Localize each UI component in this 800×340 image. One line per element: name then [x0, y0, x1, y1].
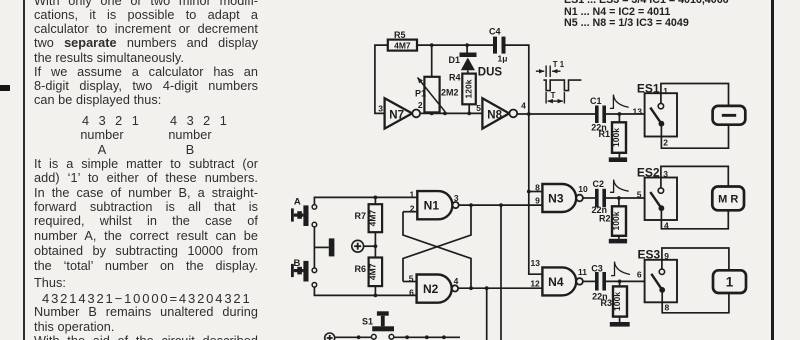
node start rail c: [442, 335, 446, 339]
analog switch ES3: [638, 248, 677, 313]
node R4 bottom: [467, 112, 471, 116]
svg-text:12: 12: [530, 279, 540, 289]
wire ES3 key loop: [662, 248, 729, 313]
minus key: [713, 106, 746, 125]
svg-text:2M2: 2M2: [441, 87, 459, 97]
node N8 out: [527, 112, 531, 116]
nand gate N3: [535, 182, 588, 212]
svg-text:N3: N3: [548, 191, 564, 205]
svg-text:T 1: T 1: [553, 60, 565, 69]
wire C3 to ES3 pin 6: [606, 280, 645, 282]
svg-text:1: 1: [726, 275, 734, 290]
clock bus vertical to N3/N4: [529, 114, 543, 274]
wire N1 out to N3 pin 9: [459, 204, 543, 206]
node R7 top: [374, 196, 378, 200]
svg-text:13: 13: [531, 258, 541, 268]
timing diagram T1: [536, 60, 582, 104]
ground R2: [609, 239, 627, 244]
resistor R7: [354, 197, 382, 246]
svg-text:1: 1: [409, 190, 414, 200]
switch S1: [362, 311, 394, 339]
resistor R2: [599, 198, 626, 239]
resistor R6: [354, 246, 382, 295]
wire N2 pin 5: [403, 281, 417, 283]
ground R3: [610, 322, 630, 327]
resistor R5: [388, 30, 417, 51]
svg-text:4M7: 4M7: [367, 210, 377, 227]
svg-text:13: 13: [633, 106, 643, 116]
svg-text:A: A: [294, 196, 301, 207]
svg-text:3: 3: [663, 169, 668, 179]
wire A bottom to B top: [313, 227, 315, 268]
svg-text:M R: M R: [718, 194, 738, 206]
IC designation note: [564, 0, 729, 6]
node N1 out to lower bus: [499, 203, 503, 207]
wire N2 out to N4 pin 12: [458, 287, 542, 289]
svg-text:N7: N7: [389, 109, 404, 121]
resistor R1: [598, 114, 626, 157]
svg-text:9: 9: [664, 251, 669, 261]
svg-text:100k: 100k: [612, 292, 622, 311]
svg-text:11: 11: [578, 267, 587, 277]
svg-text:R2: R2: [599, 213, 611, 223]
resistor R4: [449, 72, 476, 113]
svg-text:2: 2: [418, 100, 423, 110]
capacitor C4: [489, 27, 507, 64]
left text column: [34, 0, 258, 8]
svg-text:3: 3: [454, 193, 459, 203]
pulse symbol row 3: [611, 262, 630, 276]
potentiometer P1: [415, 45, 459, 113]
nand gate N1: [409, 190, 458, 220]
wire N3 pin 8: [529, 191, 543, 193]
node C1 R1 junction: [618, 112, 622, 116]
node start rail a: [405, 335, 409, 339]
svg-text:ES3: ES3: [638, 248, 661, 262]
supply plus: [352, 240, 376, 252]
svg-text:R1: R1: [598, 129, 610, 139]
svg-text:4: 4: [454, 276, 459, 286]
node C2 R2 junction: [617, 196, 621, 200]
wire bus down from N1 out: [500, 205, 502, 340]
pulse symbol row 1: [610, 95, 629, 109]
svg-text:R6: R6: [354, 264, 366, 274]
svg-text:1: 1: [663, 86, 668, 96]
wire bus down from N2 out: [486, 288, 488, 340]
svg-text:R4: R4: [449, 72, 461, 82]
svg-text:C2: C2: [593, 179, 605, 189]
svg-text:R5: R5: [394, 30, 406, 40]
supply plus bottom rail: [325, 333, 335, 340]
wire bottom start rail: [335, 336, 372, 338]
inverter N8: [476, 98, 526, 128]
svg-text:4M7: 4M7: [367, 263, 377, 280]
svg-text:10: 10: [578, 184, 588, 194]
node N1 out: [469, 203, 473, 207]
wire cross couple N2 out to N1 pin 2: [403, 212, 471, 289]
node start rail b: [425, 335, 429, 339]
analog switch ES1: [637, 81, 677, 147]
svg-text:D1: D1: [448, 55, 460, 65]
wire bottom rail B to N2 pin 6: [314, 287, 416, 295]
svg-text:N8: N8: [487, 109, 502, 121]
push button B: [291, 258, 317, 287]
svg-text:C1: C1: [590, 96, 602, 106]
node C3 R3 junction: [618, 280, 622, 284]
wire N8 out to C1: [517, 113, 595, 115]
svg-text:120k: 120k: [464, 79, 474, 98]
svg-text:2: 2: [663, 137, 668, 147]
inverter N7: [378, 98, 423, 128]
svg-text:N4: N4: [548, 275, 564, 289]
svg-text:T: T: [551, 91, 556, 100]
wire N7 input left vertical: [375, 45, 388, 113]
capacitor C2: [592, 179, 608, 215]
wire top rail oscillator: [417, 44, 493, 46]
node clock to N3 pin8: [527, 190, 531, 194]
diode D1 DUS: [448, 45, 502, 78]
wire ES2 key loop: [661, 166, 728, 228]
node on start rail: [357, 335, 361, 339]
svg-text:8: 8: [535, 182, 540, 192]
capacitor C1: [590, 96, 607, 133]
svg-text:P1: P1: [415, 88, 426, 98]
capacitor C3: [591, 264, 607, 302]
svg-text:8: 8: [665, 303, 670, 313]
wire N4 out to C3: [583, 280, 595, 282]
svg-text:9: 9: [535, 195, 540, 205]
wire N3 out to C2: [583, 197, 595, 199]
wire N1 pin 2: [403, 211, 417, 213]
svg-text:S1: S1: [362, 316, 373, 326]
wire ES1 key loop: [661, 84, 729, 149]
svg-text:R3: R3: [600, 298, 612, 308]
pulse symbol row 2: [610, 180, 629, 193]
svg-text:100k: 100k: [611, 128, 621, 147]
svg-text:4M7: 4M7: [394, 41, 411, 51]
svg-text:N2: N2: [423, 282, 439, 296]
svg-text:6: 6: [637, 269, 642, 279]
wire cross couple N1 out to N2 pin 5: [403, 205, 471, 281]
one key: [713, 270, 746, 293]
nand gate N4: [530, 258, 587, 296]
analog switch ES2: [637, 165, 677, 230]
wire C4 to N8 output corner: [506, 45, 529, 114]
node D1 top: [465, 43, 469, 47]
wire N7 out to N8 in: [420, 112, 482, 114]
svg-text:5: 5: [637, 189, 642, 199]
svg-text:1μ: 1μ: [498, 54, 508, 64]
svg-text:5: 5: [476, 103, 481, 113]
svg-text:N1: N1: [424, 199, 440, 213]
svg-text:100k: 100k: [611, 211, 621, 230]
nand gate N2: [409, 274, 459, 303]
wire C2 to ES2 pin 5: [606, 197, 645, 199]
resistor R3: [600, 281, 627, 322]
svg-text:C4: C4: [489, 27, 501, 37]
wire C1 to ES1 pin 13: [606, 113, 645, 115]
svg-text:3: 3: [378, 104, 383, 114]
svg-text:R7: R7: [354, 211, 366, 221]
node N2 out: [469, 286, 473, 290]
svg-text:ES1: ES1: [637, 81, 660, 95]
svg-text:DUS: DUS: [478, 67, 503, 79]
wire start rail right: [394, 336, 460, 338]
svg-text:4: 4: [521, 101, 526, 111]
node R7/R6 junction: [374, 244, 378, 248]
node N2 out to lower bus: [485, 286, 489, 290]
MR key: [712, 187, 744, 211]
key common bar: [314, 238, 334, 256]
node P1 bottom: [430, 112, 434, 116]
svg-text:ES2: ES2: [637, 165, 660, 179]
ground R1: [609, 157, 627, 162]
wire top rail A to N1 pin 1: [314, 197, 417, 204]
svg-text:C3: C3: [591, 264, 603, 274]
node R6 bottom: [374, 294, 378, 298]
svg-text:6: 6: [409, 287, 414, 297]
node P1 wiper: [443, 112, 447, 116]
node P1 top: [430, 43, 434, 47]
push button A: [291, 196, 317, 227]
